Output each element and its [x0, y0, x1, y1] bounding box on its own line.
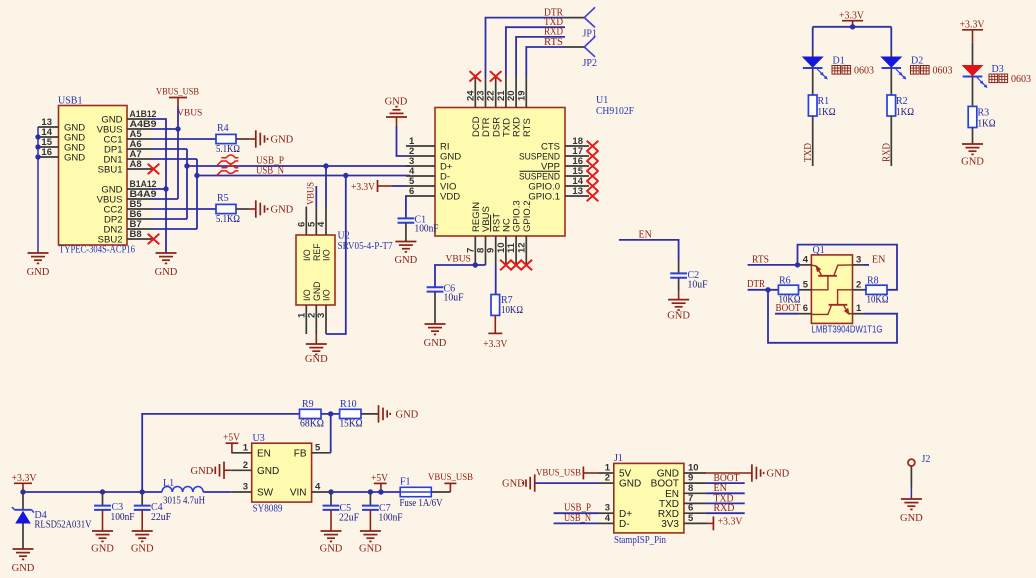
power flag VBUS_USB (J1 pin1) [536, 467, 599, 480]
LED D3 (red) [963, 64, 1004, 88]
svg-text:VBUS: VBUS [177, 109, 202, 119]
svg-text:GND: GND [271, 205, 294, 216]
svg-text:+5V: +5V [371, 473, 389, 484]
wire EN (J1 pin8) [706, 492, 745, 494]
svg-text:EN: EN [257, 448, 271, 459]
svg-text:GND: GND [900, 513, 923, 524]
wire U1 VDD to C1 [405, 196, 407, 218]
svg-text:GND: GND [502, 479, 525, 490]
svg-text:2: 2 [243, 460, 248, 471]
svg-text:D-: D- [619, 519, 630, 530]
svg-text:VBUS_USB: VBUS_USB [428, 473, 473, 483]
svg-text:3015 4.7uH: 3015 4.7uH [163, 496, 205, 507]
junction C7 [368, 489, 373, 494]
junction rail/+3.3V [20, 489, 25, 494]
label blue-LED 0603 (D2) [911, 66, 953, 77]
wire R9 to R10 [321, 413, 340, 415]
svg-text:JP2: JP2 [583, 58, 597, 69]
ground GND (C3) [91, 531, 114, 555]
ground GND (C7) [359, 531, 382, 555]
svg-text:RLSD52A031V: RLSD52A031V [35, 520, 93, 531]
wire RXD (J1 pin6) [706, 512, 745, 514]
svg-text:GND: GND [12, 563, 35, 574]
power flag +5V (VIN) [371, 473, 389, 492]
svg-text:USB_N: USB_N [564, 513, 591, 524]
junction U2 pin4/USB_P [323, 163, 328, 168]
svg-text:R1: R1 [818, 96, 830, 107]
svg-text:0603: 0603 [854, 66, 874, 77]
net label TXD [544, 17, 563, 28]
capacitor C3 100nF [94, 502, 135, 523]
svg-text:3V3: 3V3 [661, 519, 679, 530]
net label EN (J1) [714, 483, 727, 494]
svg-text:R10: R10 [340, 399, 357, 410]
svg-text:15KΩ: 15KΩ [340, 419, 363, 430]
ground GND (USB1 pins) [155, 253, 178, 278]
wire +3.3V to D3 [972, 43, 974, 66]
no-connect X pin 22 [490, 71, 502, 81]
wire U2 pin4 to USB_P [325, 166, 327, 207]
svg-text:J1: J1 [614, 453, 623, 464]
net label TXD (J1) [714, 493, 734, 504]
svg-text:R9: R9 [302, 399, 314, 410]
svg-text:22uF: 22uF [151, 512, 171, 523]
svg-text:RXD: RXD [882, 143, 893, 162]
svg-text:1: 1 [243, 442, 249, 453]
svg-text:GND: GND [27, 267, 50, 278]
svg-text:SW: SW [257, 488, 274, 499]
no-connect X marks U1 right pins [587, 141, 599, 201]
power flag +3.3V (LEDs) [839, 10, 865, 27]
junction pin16 [35, 154, 40, 159]
svg-text:J2: J2 [922, 454, 931, 465]
svg-text:12: 12 [516, 242, 527, 253]
svg-text:VIN: VIN [290, 488, 307, 499]
svg-text:REF: REF [312, 243, 322, 261]
svg-text:GND: GND [91, 544, 114, 555]
resistor R8 10K [866, 276, 889, 306]
ground GND (C4) [131, 531, 154, 555]
wire C4 to GND [141, 510, 143, 531]
no-connect X pin 24 [470, 71, 482, 81]
wire RTS [526, 47, 584, 77]
svg-text:I/O: I/O [322, 289, 332, 301]
svg-text:+5V: +5V [223, 433, 241, 444]
wire BOOT (J1 pin9) [706, 482, 745, 484]
wire R7 to +3.3V [494, 315, 496, 333]
svg-text:U1: U1 [596, 95, 608, 106]
net label TXD (rotated) [803, 143, 814, 162]
svg-text:RTS: RTS [752, 254, 769, 265]
no-connect X on pin B8 [148, 234, 160, 244]
svg-text:+3.3V: +3.3V [483, 339, 508, 350]
jumper JP2 [583, 37, 597, 69]
wire C2 to GND [678, 278, 680, 300]
connector J2 (test point) [908, 454, 930, 466]
wire C5 to GND [330, 510, 332, 531]
wire RXD [516, 37, 565, 77]
svg-text:GND: GND [131, 544, 154, 555]
Q1 pin stubs [799, 254, 863, 314]
svg-text:1KΩ: 1KΩ [978, 119, 996, 130]
svg-text:10uF: 10uF [688, 280, 708, 291]
svg-text:TYPEC-304S-ACP16: TYPEC-304S-ACP16 [59, 245, 135, 256]
power flag +3.3V (D3) [960, 19, 986, 43]
J1 right pins [651, 463, 706, 531]
transistor Q1 LMBT3904DW1T1G body [811, 245, 882, 336]
USB1 right pins [97, 109, 157, 245]
svg-text:USB_N: USB_N [256, 165, 284, 176]
ground GND (D3) [961, 144, 984, 168]
differential pair marker USB_N [217, 165, 238, 175]
junction LED rail [850, 24, 855, 29]
net label RXD (rotated) [882, 143, 893, 162]
svg-text:10KΩ: 10KΩ [867, 295, 889, 306]
U1 right pins 13-18 [519, 136, 589, 202]
resistor R4 [216, 123, 240, 155]
wire R3 to GND [972, 128, 974, 145]
resistor R7 10K [491, 295, 523, 317]
junction pin14 [35, 134, 40, 139]
svg-text:F1: F1 [400, 477, 411, 488]
svg-text:SBU2: SBU2 [98, 234, 123, 245]
svg-text:D2: D2 [911, 56, 923, 67]
svg-text:RTS: RTS [544, 37, 563, 48]
wire J2 to GND [910, 466, 912, 499]
svg-text:B8: B8 [130, 229, 142, 240]
svg-text:RTS: RTS [522, 118, 533, 137]
svg-text:100nF: 100nF [415, 224, 439, 235]
svg-text:SBU1: SBU1 [98, 164, 123, 175]
power flag +3.3V (J1 pin5) [706, 517, 743, 531]
svg-text:CH9102F: CH9102F [596, 106, 634, 117]
wire DN1-DN2 [152, 159, 197, 229]
svg-text:GND: GND [359, 544, 382, 555]
svg-text:0603: 0603 [933, 66, 953, 77]
svg-text:BOOT: BOOT [776, 303, 801, 314]
wire C3 branch [102, 492, 104, 506]
wire D3 to R3 [972, 77, 974, 107]
wire VIN rail [331, 491, 401, 493]
svg-text:GND: GND [767, 469, 790, 480]
svg-text:5: 5 [803, 279, 809, 290]
jumper JP1 [583, 7, 597, 39]
Q1 transistor B (pins 2-6-1) [811, 290, 852, 316]
wire R8 to Q1 pin2 [863, 289, 866, 291]
ground GND (USB1 shield) [27, 253, 50, 278]
capacitor C1 100nF [398, 215, 439, 235]
junction C3 [100, 489, 105, 494]
junction pin15 [35, 144, 40, 149]
svg-text:R3: R3 [978, 108, 990, 119]
wire C1 to GND [405, 223, 407, 242]
svg-text:EN: EN [639, 229, 652, 240]
wire CC1 to R4 [152, 138, 216, 140]
svg-text:6: 6 [409, 186, 414, 197]
svg-text:+3.3V: +3.3V [960, 19, 986, 30]
ground GND (J1 pin2, sideways) [502, 474, 599, 491]
svg-text:1KΩ: 1KΩ [818, 107, 836, 118]
svg-text:GPIO.2: GPIO.2 [522, 200, 533, 232]
resistor R10 15K [340, 399, 363, 430]
net label USB_P (J1) [564, 503, 591, 514]
wire net USB_P [187, 165, 410, 167]
ground GND (C2) [667, 300, 690, 322]
LED D1 (blue) [803, 56, 845, 80]
wire FB tap to pin5 [330, 414, 332, 453]
svg-text:U3: U3 [253, 433, 265, 444]
no-connect X on pin A8 [148, 164, 160, 174]
LED D2 (blue) [882, 56, 924, 80]
junction DTR/R6 [765, 287, 770, 292]
ground GND (J2) [900, 499, 923, 524]
svg-text:R4: R4 [217, 123, 229, 134]
resistor R1 1K [808, 95, 835, 118]
svg-text:GND: GND [396, 410, 419, 421]
svg-text:+3.3V: +3.3V [718, 517, 744, 528]
svg-text:4: 4 [605, 513, 611, 524]
svg-text:DTR: DTR [747, 279, 765, 290]
ground GND (D4) [12, 549, 35, 574]
svg-text:GND: GND [320, 544, 343, 555]
svg-text:GND: GND [961, 157, 984, 168]
wire C3 to GND [102, 510, 104, 531]
connector USB1 (TYPEC-304S-ACP16) body [58, 96, 135, 256]
net label DTR [544, 7, 563, 18]
svg-text:5.1KΩ: 5.1KΩ [216, 144, 240, 155]
junction FB divider [328, 411, 333, 416]
J1 left pins [599, 463, 642, 531]
wire USB_N to J1 [554, 522, 599, 524]
svg-text:+3.3V: +3.3V [12, 473, 38, 484]
svg-text:3: 3 [316, 313, 327, 318]
svg-text:USB1: USB1 [58, 96, 82, 107]
power flag +3.3V (rail) [12, 473, 38, 492]
svg-text:RXD: RXD [714, 503, 735, 514]
net label VBUS (U2 pin5) [306, 182, 316, 205]
power flag VBUS_USB [156, 88, 199, 107]
wire VBUS [152, 106, 178, 199]
svg-text:StampISP_Pin: StampISP_Pin [614, 535, 666, 546]
wire 3.3V rail [23, 491, 162, 493]
svg-text:0603: 0603 [1011, 74, 1031, 85]
wire U1 RST to R7 [495, 265, 497, 295]
svg-text:L1: L1 [163, 478, 174, 489]
svg-text:EN: EN [872, 255, 885, 266]
IC U1 CH9102F body [435, 95, 634, 236]
wire USB1 shield to GND [37, 127, 39, 253]
wire U2 pin3 to USB_N [326, 176, 346, 335]
inductor L1 4.7uH [162, 478, 205, 507]
svg-text:10KΩ: 10KΩ [501, 305, 523, 316]
ground GND (U1 pin2, inverted) [385, 97, 408, 118]
svg-text:GND: GND [424, 338, 447, 349]
net label BOOT (Q1) [776, 303, 801, 314]
svg-text:VBUS_USB: VBUS_USB [536, 469, 581, 479]
svg-text:GPIO.1: GPIO.1 [528, 191, 560, 202]
svg-text:2: 2 [856, 279, 861, 290]
ground GND (R10, sideways) [379, 405, 419, 422]
U1 left pins 1-6 [406, 136, 461, 202]
resistor R9 68K [300, 399, 325, 430]
capacitor C7 100nF [362, 503, 403, 524]
svg-text:TXD: TXD [803, 143, 814, 162]
wire C6 to GND [434, 292, 436, 324]
svg-text:I/O: I/O [302, 289, 312, 301]
power flag +3.3V (R7) [483, 333, 508, 350]
power flag +3.3V (U1 VIO) [351, 180, 406, 193]
resistor R2 1K [887, 95, 914, 118]
svg-text:I/O: I/O [302, 249, 312, 261]
svg-text:SY8089: SY8089 [253, 504, 283, 515]
U2 bottom pins 1,2,3 [296, 281, 331, 334]
wire L1 to SW [203, 491, 231, 493]
svg-text:VBUS: VBUS [306, 182, 316, 205]
wire R4 to GND [236, 138, 256, 140]
connector J1 StampISP_Pin body [614, 453, 684, 546]
svg-text:GND: GND [385, 97, 408, 108]
wire +3.3V to D2 [890, 27, 892, 57]
svg-text:U2: U2 [338, 231, 350, 242]
svg-text:R8: R8 [867, 276, 879, 287]
wire DTR [486, 18, 585, 77]
svg-text:100nF: 100nF [111, 512, 135, 523]
ground GND (C6) [424, 324, 447, 349]
net label USB_P [256, 156, 284, 167]
svg-text:R2: R2 [896, 96, 908, 107]
svg-text:1: 1 [856, 303, 862, 314]
wire D1 to R1 [812, 68, 814, 95]
svg-text:68KΩ: 68KΩ [300, 419, 324, 430]
wire D4 to GND [22, 524, 24, 550]
svg-text:+3.3V: +3.3V [839, 10, 865, 21]
wire DP1-DP2 [152, 149, 187, 219]
wire D2 to R2 [890, 68, 892, 95]
U1 top pins 19-24 [465, 77, 533, 138]
svg-text:VBUS: VBUS [446, 255, 471, 265]
wire C4 branch [141, 492, 143, 506]
wire U1 pin2 to GND [397, 117, 407, 156]
wire R5 to GND [236, 208, 256, 210]
svg-text:D3: D3 [992, 64, 1004, 75]
svg-text:6: 6 [803, 303, 808, 314]
ground GND (U3 pin2, sideways) [191, 462, 232, 479]
net label VBUS [177, 109, 202, 119]
ESD array U2 SRV05-4-P-T7 body [296, 231, 393, 306]
svg-text:Q1: Q1 [813, 245, 825, 256]
power flag VBUS_USB (F1) [428, 473, 473, 483]
svg-text:GND: GND [305, 354, 328, 365]
Q1 transistor A (pins 4-5-3) [811, 265, 852, 290]
svg-text:A8: A8 [130, 159, 142, 170]
svg-text:LMBT3904DW1T1G: LMBT3904DW1T1G [812, 325, 883, 336]
junction RTS/Q1 [795, 262, 800, 267]
net label VBUS (U1) [446, 255, 471, 265]
wire DTR to R6 [748, 289, 779, 291]
wire R2 to RXD [890, 116, 892, 166]
wire DTR to Q1 pin1 (bottom loop) [768, 290, 897, 343]
svg-text:VBUS_USB: VBUS_USB [156, 88, 199, 98]
wire net USB_N [197, 175, 410, 177]
net label EN (Q1 pin3) [863, 255, 885, 266]
svg-text:13: 13 [572, 186, 583, 197]
wire USB_P to J1 [554, 512, 599, 514]
wire Q1 collector loop to R8 [798, 245, 898, 290]
wire +3.3V to D1 [812, 27, 814, 57]
wire LED rail [813, 26, 892, 28]
svg-text:19: 19 [516, 90, 527, 101]
svg-text:3: 3 [243, 482, 248, 493]
svg-text:10uF: 10uF [444, 293, 464, 304]
junction VBUS [175, 126, 180, 131]
net label RXD (J1) [714, 503, 735, 514]
resistor R3 1K [968, 106, 995, 129]
net label USB_N [256, 165, 284, 176]
ground GND (J1 pin10, sideways) [752, 464, 790, 481]
capacitor C5 22uF [323, 503, 360, 524]
svg-text:R5: R5 [217, 193, 229, 204]
wire BOOT to Q1 pin6 [775, 313, 799, 315]
wire C5 branch [330, 492, 332, 506]
power flag +5V (U3 EN) [223, 433, 241, 453]
net label RXD [544, 27, 563, 38]
net label USB_N (J1) [564, 513, 591, 524]
junction U2 pin3/USB_N [343, 173, 348, 178]
resistor R6 10K [778, 276, 800, 306]
svg-text:GND: GND [155, 267, 178, 278]
wire CC2 to R5 [152, 208, 216, 210]
capacitor C6 10uF [427, 284, 464, 304]
junction U1 pin7 VBUS [473, 262, 478, 267]
svg-text:GND: GND [257, 466, 279, 477]
svg-text:1KΩ: 1KΩ [896, 107, 914, 118]
differential pair marker USB_P [217, 155, 239, 166]
ground GND (R5) [256, 200, 294, 217]
svg-text:GND: GND [667, 311, 690, 322]
fuse F1 1A/6V [400, 477, 444, 510]
svg-text:100nF: 100nF [379, 513, 403, 524]
net label BOOT (J1) [714, 473, 740, 484]
wire R1 to TXD [812, 116, 814, 166]
junction B1A12 [163, 186, 168, 191]
ground GND (U2) [305, 344, 328, 365]
no-connect X pins 10,11,12 [500, 260, 532, 270]
svg-text:2: 2 [605, 473, 610, 484]
junction C5 [328, 489, 333, 494]
ground GND (R4) [256, 130, 294, 147]
svg-text:R6: R6 [779, 276, 791, 287]
svg-text:GND: GND [312, 281, 322, 301]
wire TXD (J1 pin7) [706, 502, 745, 504]
svg-text:5.1KΩ: 5.1KΩ [216, 214, 240, 225]
wire A1B12+B1A12 GND [152, 119, 166, 253]
svg-text:FB: FB [294, 448, 307, 459]
svg-text:16: 16 [41, 147, 52, 158]
U1 bottom pins 7-12 [465, 200, 533, 265]
wire F1 to VBUS_USB [431, 483, 450, 492]
wire D4 branch [22, 492, 24, 509]
label blue-LED 0603 (D1) [832, 66, 874, 77]
svg-text:GND: GND [64, 152, 85, 163]
net label DTR (Q1) [747, 279, 765, 290]
svg-text:22uF: 22uF [339, 513, 359, 524]
svg-text:GND: GND [191, 466, 214, 477]
svg-text:5: 5 [315, 442, 321, 453]
wire C7 to GND [369, 510, 371, 531]
wire FB net [142, 414, 299, 492]
junction C4/L1/FB [140, 489, 145, 494]
net label RTS [544, 37, 563, 48]
